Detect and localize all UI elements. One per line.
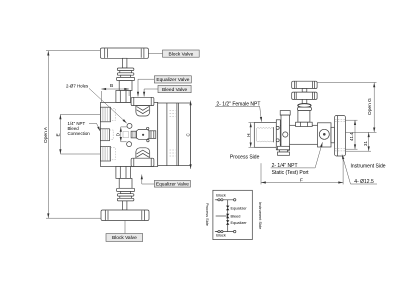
side valve: washer bbox=[298, 107, 312, 110]
svg-text:Equalizer: Equalizer bbox=[231, 220, 248, 225]
svg-text:Open A: Open A bbox=[43, 126, 49, 143]
dimension E bbox=[55, 114, 100, 154]
schematic bleed branch bbox=[216, 215, 228, 217]
process port upper (hatched) bbox=[101, 107, 116, 122]
dimension D bbox=[115, 127, 127, 142]
svg-text:Instrument Side: Instrument Side bbox=[351, 163, 386, 169]
manifold body (front view) bbox=[101, 102, 158, 166]
svg-text:C: C bbox=[185, 133, 190, 136]
side valve: bonnet bbox=[298, 111, 310, 123]
dimension C line bbox=[190, 101, 192, 170]
svg-text:41.4: 41.4 bbox=[349, 132, 354, 141]
svg-text:Equalizer: Equalizer bbox=[231, 205, 248, 210]
static test port boss circle bbox=[319, 129, 329, 139]
mounting hole lower (2-Ø7) bbox=[127, 142, 132, 147]
plate hidden bolt dashes lower bbox=[170, 150, 176, 156]
svg-text:Block Valve: Block Valve bbox=[169, 51, 194, 57]
plate face line 3 bbox=[177, 103, 179, 166]
label box Bleed Valve bbox=[144, 85, 191, 96]
schematic bottom line bbox=[215, 230, 236, 232]
inlet block (2-1/2" female NPT) bbox=[254, 123, 276, 148]
svg-text:B: B bbox=[110, 83, 113, 89]
svg-text:Instrument Side: Instrument Side bbox=[258, 202, 263, 229]
note 2-Ø7 Holes bbox=[66, 83, 127, 123]
note 2-1/2" female NPT bbox=[215, 101, 262, 121]
svg-text:Equalizer Valve: Equalizer Valve bbox=[156, 77, 189, 83]
label box Block Valve (bottom) bbox=[106, 221, 143, 242]
svg-text:Equalizer Valve: Equalizer Valve bbox=[156, 182, 189, 188]
collar bolt circles bbox=[276, 126, 279, 129]
flange adapter plate (front view right) bbox=[158, 103, 191, 166]
right body block bbox=[318, 123, 332, 147]
svg-text:31: 31 bbox=[363, 141, 368, 146]
dimension 31 bbox=[346, 132, 377, 151]
dimension B bbox=[101, 83, 129, 103]
schematic vertical line bbox=[227, 200, 229, 232]
svg-text:H: H bbox=[246, 134, 251, 137]
block valve bottom: handle bar bbox=[101, 210, 149, 221]
note 2-1/4" NPT static port bbox=[271, 142, 323, 176]
block valve top: stem bbox=[123, 58, 127, 68]
bleed valve middle (horizontal spool) bbox=[131, 127, 156, 142]
svg-text:Process Side: Process Side bbox=[230, 154, 260, 160]
schematic top line bbox=[215, 199, 236, 201]
note 4-Ø12.5 bbox=[342, 155, 377, 186]
plate face line 2 bbox=[176, 103, 178, 166]
svg-text:Process Side: Process Side bbox=[205, 203, 210, 226]
side valve: base hex bbox=[296, 122, 313, 126]
svg-text:Connection: Connection bbox=[68, 131, 91, 136]
label box Equalizer Valve (bottom) bbox=[142, 175, 191, 188]
side valve: handle bars bbox=[292, 81, 317, 99]
schematic bleed valve bbox=[226, 214, 229, 219]
side body tube bbox=[280, 125, 318, 144]
svg-text:E: E bbox=[55, 133, 61, 136]
note 1/4" NPT bleed connection bbox=[68, 121, 101, 136]
plate face line 1 bbox=[166, 103, 168, 166]
svg-text:D: D bbox=[115, 133, 120, 136]
schematic equalizer valve 2 bbox=[226, 220, 229, 225]
side valve: lock oval bbox=[298, 104, 311, 108]
bleed port middle (hatched) bbox=[101, 129, 114, 141]
neck to flange bbox=[331, 127, 335, 143]
schematic box bbox=[213, 190, 252, 239]
label box Block Valve (top) bbox=[148, 50, 199, 57]
block valve top: bonnet stack bbox=[116, 68, 135, 102]
block valve top: handle bar bbox=[100, 48, 148, 58]
svg-text:Open G: Open G bbox=[367, 98, 373, 115]
process port lower (hatched) bbox=[101, 147, 116, 162]
block valve bottom: stem bbox=[123, 201, 127, 210]
mounting hole upper (2-Ø7) bbox=[127, 123, 132, 128]
dimension 41.4 bbox=[346, 120, 358, 149]
dimension Open A bbox=[43, 51, 101, 219]
inlet collar disc bbox=[276, 120, 280, 150]
plate hidden bolt dashes upper bbox=[170, 111, 176, 117]
vertical bore boss bbox=[278, 111, 291, 156]
svg-text:Block Valve: Block Valve bbox=[112, 235, 137, 241]
equalizer valve bottom (end-on barrel) bbox=[131, 148, 154, 167]
block valve bottom: body nut bbox=[116, 167, 135, 201]
schematic equalizer valve 1 bbox=[226, 206, 229, 211]
svg-text:Block: Block bbox=[216, 193, 226, 198]
svg-text:Static (Test) Port: Static (Test) Port bbox=[272, 170, 310, 176]
dimension Open G bbox=[317, 83, 376, 133]
svg-text:Block: Block bbox=[216, 233, 226, 238]
internal passage rect bbox=[123, 131, 129, 137]
dimension H bbox=[246, 123, 254, 148]
svg-text:F: F bbox=[300, 177, 303, 183]
dimension F bbox=[261, 158, 343, 185]
svg-text:2-Ø7 Holes: 2-Ø7 Holes bbox=[66, 83, 89, 88]
svg-text:Bleed: Bleed bbox=[231, 213, 241, 218]
equalizer valve top (end-on barrel) bbox=[131, 97, 154, 116]
svg-text:Bleed Valve: Bleed Valve bbox=[162, 87, 188, 93]
side valve: stem bbox=[302, 99, 307, 103]
label box Equalizer Valve (top) bbox=[138, 76, 191, 97]
flange (edge view) bbox=[335, 116, 346, 157]
